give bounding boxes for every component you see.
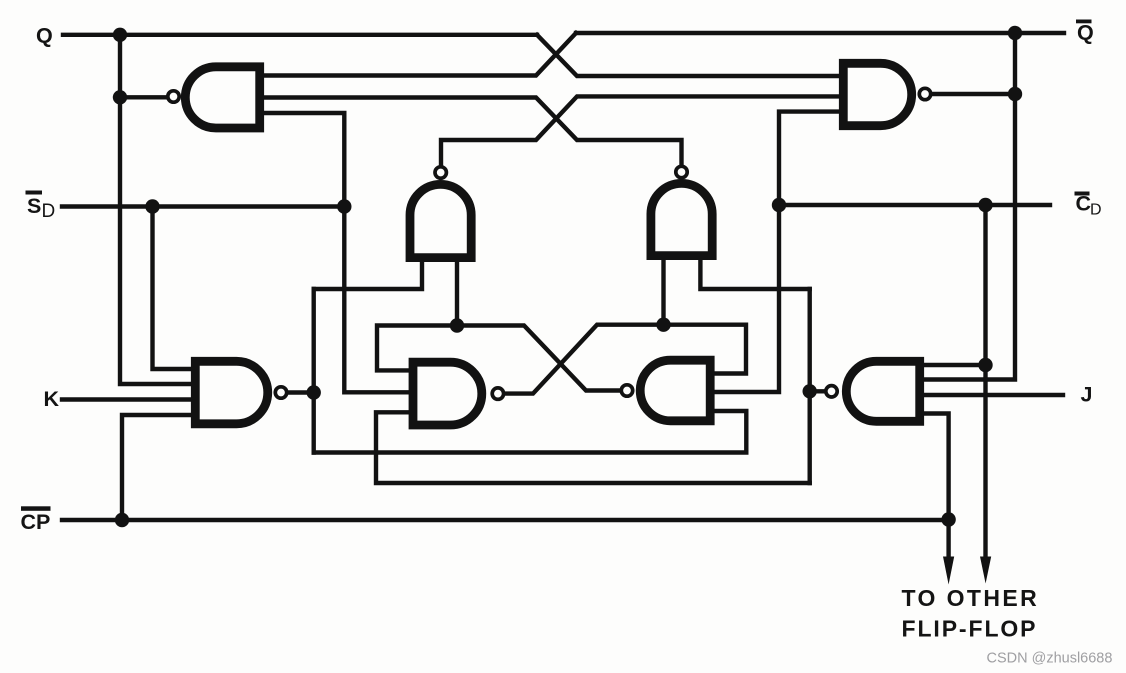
wire CP rail (y=520) (62, 518, 949, 522)
wire SD rail (y=206.5) (62, 204, 348, 208)
wire K input (62, 397, 191, 401)
wire U1 output to Q node (120, 95, 166, 99)
node CP right junction (941, 512, 955, 526)
wire CD vertical to U2 input 3 and U6 input 2 (714, 112, 839, 392)
wire U4 output crossover to U1 input 2 (264, 98, 682, 165)
wire branch U5 output to U4 input A (661, 260, 665, 325)
wire U3 output crossover to U2 input 2 (441, 96, 839, 165)
svg-text:S: S (27, 194, 41, 218)
svg-text:FLIP-FLOP: FLIP-FLOP (902, 616, 1038, 642)
wire U6 output crossover to U5 input 1 (377, 326, 620, 391)
bubble U6 output (621, 385, 632, 396)
wire U7 output link (289, 390, 314, 394)
wire U5 output crossover to U6 input 1 (505, 325, 746, 394)
node CD left junction (772, 198, 786, 212)
node Q rail junction (113, 28, 127, 42)
wire J input (924, 393, 1063, 397)
node Qbar rail junction (1008, 26, 1022, 40)
wire U7 output to U6 input 3 (314, 411, 747, 453)
wire CP arrow shaft to other flip-flop (946, 520, 950, 560)
wire SD vertical through node to U1 input 3 and U5 input 2 (264, 113, 409, 392)
node U7 output junction (307, 385, 321, 399)
arrow to other flip-flop (CD) (980, 557, 991, 584)
wire U8 output link (810, 389, 824, 393)
wire SD branch to U7 input 1 (153, 207, 192, 370)
wire U8 output vertical (x=809.7) (808, 289, 812, 483)
svg-text:K: K (44, 387, 60, 411)
wire Qbar vertical feedback (x=1015) to U8 input 2 (924, 33, 1015, 380)
wire Qbar rail (y=33) (576, 31, 1064, 35)
svg-text:D: D (1090, 202, 1102, 219)
wire CD rail (y=205) (779, 203, 1050, 207)
wire branch U6 output to U3 input B (455, 262, 459, 326)
node U1 output junction (113, 90, 127, 104)
node CD right junction (978, 198, 992, 212)
svg-text:Q: Q (1077, 20, 1094, 44)
wire Q rail (y=35) (63, 33, 537, 37)
wire U2 output to Qbar node (934, 92, 1016, 96)
NAND gate U8 (J input gate, faces left) (846, 361, 919, 421)
wire U8 output to U5 input 3 (376, 412, 810, 483)
NAND gate U7 (K input gate, faces right) (195, 361, 267, 424)
svg-text:CSDN @zhusl6688: CSDN @zhusl6688 (987, 651, 1113, 667)
wire U7 output to U3 input A (314, 262, 422, 289)
node SD right junction (337, 199, 351, 213)
bubble U4 output (676, 166, 687, 177)
node U8 output junction (803, 384, 817, 398)
arrow to other flip-flop (CP) (943, 557, 954, 585)
node SD left junction (145, 199, 159, 213)
wire U8 input 4 to CP node (924, 414, 949, 521)
bubble U5 output (492, 388, 503, 399)
NAND gate U2 (drives Qbar, faces right) (843, 63, 911, 125)
NAND gate U4 (right steering gate, faces up) (651, 183, 712, 255)
bubble U1 output (168, 91, 179, 102)
node U8 input 1 / CD junction (978, 358, 992, 372)
wire Qbar crossover diagonal to U1 input row (264, 33, 576, 76)
wire U8 input 1 to CD branch node (924, 363, 986, 367)
wire Q crossover diagonal to U2 input row (537, 35, 839, 76)
wire CP branch to U7 input 4 (122, 415, 191, 520)
bubble U7 output (275, 387, 286, 398)
svg-text:CP: CP (21, 510, 51, 534)
bubble U3 output (435, 167, 446, 178)
NAND gate U5 (latch left, faces right) (413, 362, 482, 425)
NAND gate U1 (drives Q, faces left) (185, 67, 259, 128)
wire Q vertical feedback (x=120) to U7 input 2 (120, 35, 191, 384)
node U6 output junction (450, 318, 464, 332)
svg-text:J: J (1081, 383, 1093, 407)
bubble U2 output (919, 88, 930, 99)
node CP left junction (115, 513, 129, 527)
wire U8 output to U4 input B (700, 260, 809, 289)
wire CD branch down to other flip-flop (arrow 2 shaft) (983, 205, 987, 560)
bubble U8 output (826, 386, 837, 397)
NAND gate U3 (left steering gate, faces up) (410, 184, 471, 257)
node U5 output junction (656, 318, 670, 332)
node U2 output junction (1008, 87, 1022, 101)
svg-text:TO OTHER: TO OTHER (902, 585, 1040, 611)
svg-text:D: D (42, 201, 56, 222)
wire U7 output vertical (x=313.7) (312, 289, 316, 453)
NAND gate U6 (latch right, faces left) (640, 360, 710, 421)
svg-text:Q: Q (36, 24, 53, 48)
